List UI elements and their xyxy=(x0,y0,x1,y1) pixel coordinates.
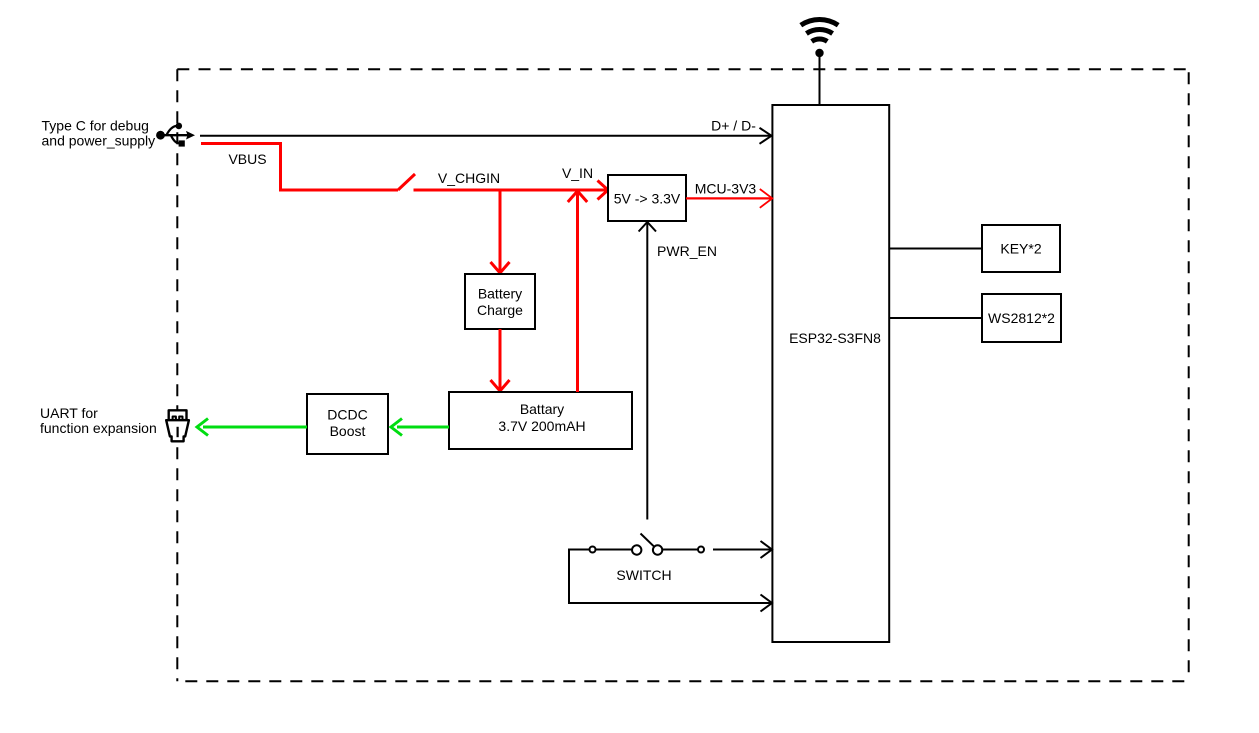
wire U1 to KEY*2 xyxy=(889,248,982,250)
svg-text:UART for: UART for xyxy=(40,405,98,421)
wire antenna to U1 xyxy=(819,53,821,105)
wire U1 to WS2812*2 xyxy=(889,317,982,319)
svg-text:Type C for debug: Type C for debug xyxy=(42,118,149,134)
switch S2 (power switch) xyxy=(590,534,705,555)
svg-text:D+ / D-: D+ / D- xyxy=(711,118,756,134)
svg-text:function expansion: function expansion xyxy=(40,420,157,436)
svg-text:5V -> 3.3V: 5V -> 3.3V xyxy=(614,191,681,207)
svg-text:VBUS: VBUS xyxy=(228,151,266,167)
keys SW KEY*2 xyxy=(982,225,1060,272)
MCU U1 ESP32-S3FN8 xyxy=(772,105,889,642)
svg-text:MCU-3V3: MCU-3V3 xyxy=(695,181,757,197)
wire V_CHGIN down to charger (red arrow) xyxy=(499,190,502,273)
svg-text:V_IN: V_IN xyxy=(562,165,593,181)
wire DCDC to UART (green arrow) xyxy=(203,426,307,429)
switch S1 (red, in VBUS line) xyxy=(398,174,415,190)
charger U2 Battery Charge xyxy=(465,274,535,329)
svg-text:PWR_EN: PWR_EN xyxy=(657,243,717,259)
svg-text:and power_supply: and power_supply xyxy=(42,133,156,149)
svg-text:V_CHGIN: V_CHGIN xyxy=(438,170,500,186)
wire PWR_EN up into regulator xyxy=(646,222,648,520)
wire V_IN from battery up to regulator (red arrow) xyxy=(576,192,579,393)
svg-text:SWITCH: SWITCH xyxy=(616,567,671,583)
battery BT1 xyxy=(449,392,632,449)
svg-text:Charge: Charge xyxy=(477,302,523,318)
svg-text:ESP32-S3FN8: ESP32-S3FN8 xyxy=(789,330,881,346)
LEDs WS2812*2 xyxy=(982,294,1061,342)
svg-text:Boost: Boost xyxy=(330,423,366,439)
svg-text:3.7V 200mAH: 3.7V 200mAH xyxy=(498,418,585,434)
wire D+/D- from J1 to U1 xyxy=(200,135,771,137)
svg-text:Battery: Battery xyxy=(478,286,522,302)
wire V_CHGIN (red) to regulator xyxy=(414,189,608,192)
antenna ANT1 (wifi icon) xyxy=(801,19,838,57)
regulator U3 5V->3.3V xyxy=(608,175,686,221)
wire switch left leg to U1 bottom (arrow) xyxy=(569,550,772,604)
svg-text:DCDC: DCDC xyxy=(327,407,367,423)
wire charger to battery (red arrow) xyxy=(499,329,502,391)
UART connector J2 (plug icon) xyxy=(166,410,189,441)
wire switch to U1 (arrow) xyxy=(713,549,772,551)
wire MCU-3V3 (red) regulator to U1 xyxy=(686,197,772,199)
wire VBUS (red) xyxy=(201,144,398,191)
wire battery to DCDC (green arrow) xyxy=(397,426,449,429)
USB connector J1 (Type-C icon) xyxy=(156,123,195,147)
svg-text:KEY*2: KEY*2 xyxy=(1000,241,1041,257)
board boundary dashed rect xyxy=(177,69,1188,681)
svg-text:Battary: Battary xyxy=(520,401,564,417)
converter U4 DCDC Boost xyxy=(307,394,388,454)
svg-text:WS2812*2: WS2812*2 xyxy=(988,310,1055,326)
